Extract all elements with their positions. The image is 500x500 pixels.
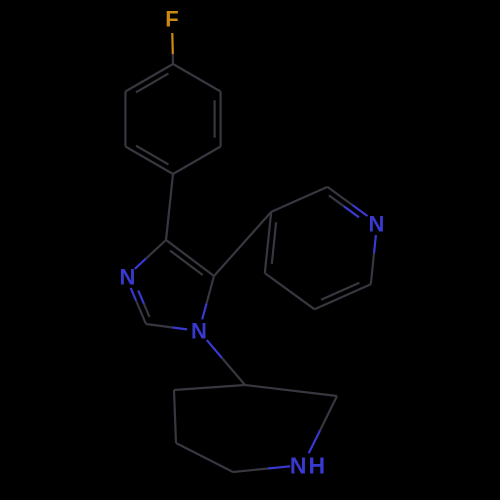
phenyl ring bond C1-C2 — [173, 64, 221, 92]
pyridine ring bond C3-C2 — [271, 187, 327, 212]
imidazole C2=N3 double bond inner line — [138, 290, 149, 317]
phenyl ring bond C3-C4 — [173, 147, 221, 175]
imidazole bond N3-C4 — [135, 240, 166, 269]
bond phenyl C4 - imidazole C4 — [166, 174, 173, 240]
imidazole C4=C5 double bond inner line — [170, 251, 203, 275]
bond F - phenyl C1 (F half gold) — [171, 33, 174, 64]
piperidine ring bond C3-C2 — [245, 385, 337, 396]
bond imidazole C5 - pyridine C3 — [214, 212, 271, 276]
pyridine ring bond C6-C5 — [315, 284, 371, 309]
phenyl C6=C1 double bond inner line — [136, 74, 168, 93]
imidazole bond C2-N3 — [131, 288, 146, 324]
piperidine ring bond N1-C6 — [233, 466, 290, 472]
imidazole bond C5-N1 — [202, 276, 214, 319]
imidazole bond N1-C2 — [146, 324, 187, 329]
pyridine ring bond N1-C6 — [371, 235, 376, 284]
pyridine ring bond C2-N1 — [327, 187, 367, 216]
pyridine C2=N1 double bond inner line — [329, 195, 359, 217]
phenyl C4=C5 double bond inner line — [136, 146, 168, 165]
phenyl ring bond C6-C1 — [125, 64, 173, 92]
svg-text:NH: NH — [290, 453, 327, 479]
svg-text:N: N — [191, 319, 207, 344]
pyridine ring bond C4-C3 — [265, 212, 271, 273]
phenyl C2=C3 double bond inner line — [214, 100, 216, 137]
pyridine ring bond C5-C4 — [265, 273, 315, 309]
svg-text:N: N — [120, 265, 136, 290]
piperidine ring bond C2-N1 — [309, 396, 337, 453]
phenyl ring bond C4-C5 — [125, 147, 173, 175]
svg-text:N: N — [369, 212, 385, 237]
pyridine C6=C5 double bond inner line — [321, 283, 359, 300]
imidazole bond C4-C5 — [166, 240, 214, 276]
phenyl ring bond C2-C3 — [220, 92, 222, 147]
piperidine ring bond C4-C3 — [174, 385, 245, 390]
svg-text:F: F — [165, 7, 178, 32]
piperidine ring bond C6-C5 — [176, 443, 233, 472]
pyridine C4=C3 double bond inner line — [272, 222, 276, 264]
bond imidazole N1 - piperidine C3 — [207, 340, 245, 385]
piperidine ring bond C5-C4 — [174, 390, 176, 443]
phenyl ring bond C5-C6 — [124, 92, 126, 147]
